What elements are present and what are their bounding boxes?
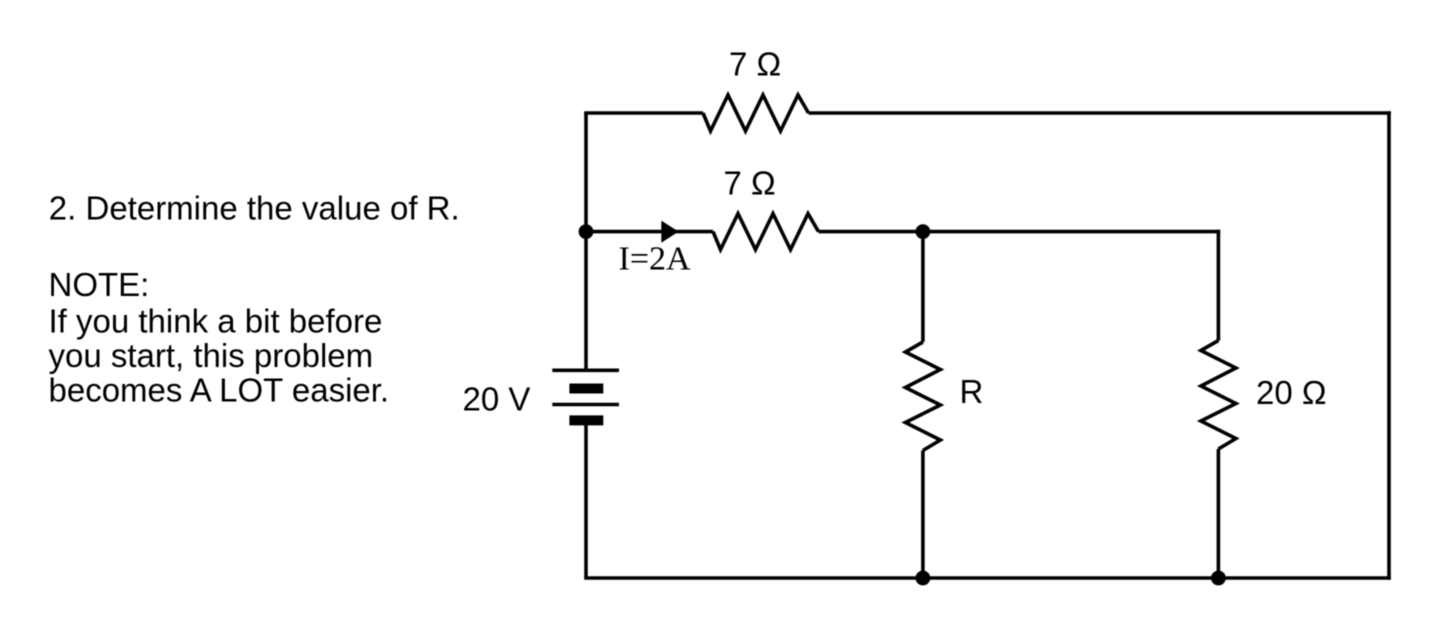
battery V1: plate 4 short thick bbox=[569, 415, 603, 425]
wire: middle rail from node A to resistor R2 bbox=[586, 230, 713, 234]
battery V1: plate 3 long bbox=[552, 403, 619, 407]
resistor R3 R (vertical) bbox=[905, 342, 940, 451]
wire: left vertical from top rail to battery top plate bbox=[584, 113, 588, 370]
wire: 20 ohm branch lower vertical bbox=[1217, 449, 1221, 578]
wire: bottom rail bbox=[584, 576, 1391, 580]
battery V1: plate 2 short thick bbox=[569, 384, 603, 394]
svg-text:2. Determine the value of R.: 2. Determine the value of R. bbox=[49, 190, 460, 227]
node D junction dot bbox=[1211, 571, 1226, 586]
resistor R2 7 ohm (middle) bbox=[713, 214, 819, 250]
wire: 20 ohm branch upper vertical bbox=[1217, 230, 1221, 341]
svg-text:I=2A: I=2A bbox=[619, 241, 691, 278]
wire: R branch upper vertical bbox=[921, 232, 925, 342]
wire: top rail right segment bbox=[809, 111, 1391, 115]
node C junction dot bbox=[916, 571, 931, 586]
wire: left vertical from battery bottom to bottom rail bbox=[584, 420, 588, 578]
wire: R branch lower vertical bbox=[921, 451, 925, 579]
svg-text:R: R bbox=[960, 373, 984, 410]
current arrow I bbox=[661, 221, 678, 243]
svg-text:20 V: 20 V bbox=[463, 381, 531, 418]
wire: middle rail from resistor R2 to 20 ohm branch corner bbox=[819, 230, 1221, 234]
svg-text:20 Ω: 20 Ω bbox=[1256, 374, 1327, 411]
svg-text:7 Ω: 7 Ω bbox=[724, 165, 776, 202]
resistor R4 20 ohm (vertical) bbox=[1201, 341, 1236, 450]
svg-text:If you think a bit before: If you think a bit before bbox=[49, 303, 383, 340]
wire: right vertical bbox=[1387, 111, 1391, 580]
wire: top rail left segment bbox=[584, 111, 703, 115]
node A junction dot bbox=[579, 224, 594, 239]
svg-text:NOTE:: NOTE: bbox=[49, 266, 150, 303]
resistor R1 7 ohm (top) bbox=[703, 95, 809, 131]
svg-text:becomes A LOT easier.: becomes A LOT easier. bbox=[49, 372, 390, 409]
battery V1 20 V: plate 1 long bbox=[552, 368, 619, 372]
svg-text:you start, this problem: you start, this problem bbox=[49, 337, 374, 374]
svg-text:7 Ω: 7 Ω bbox=[729, 46, 781, 83]
node B junction dot bbox=[916, 224, 931, 239]
